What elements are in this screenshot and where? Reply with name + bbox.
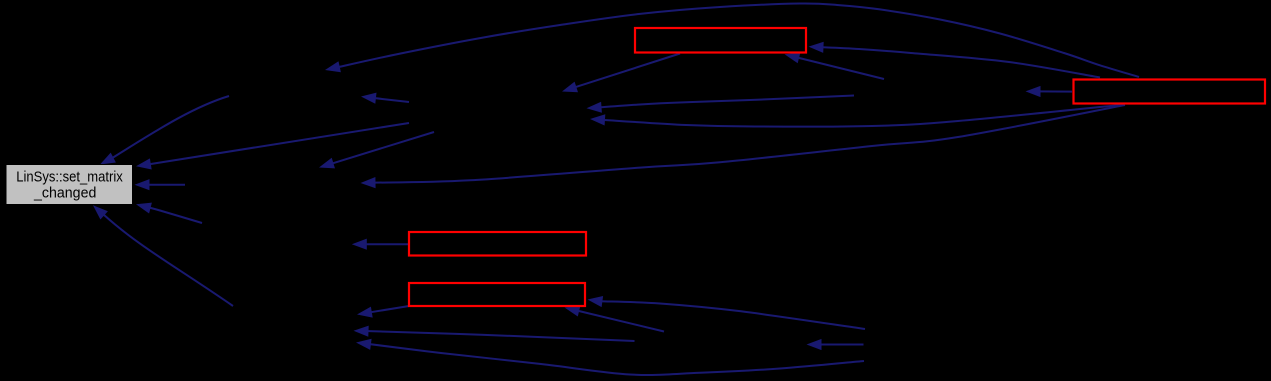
svg-text:_changed: _changed [33, 184, 96, 201]
edge E20 into mid red box 2 bottom-right [575, 310, 664, 331]
node: middle red box 2 (truncated caller) [409, 283, 585, 306]
edge E4 from top red box to mid node [573, 54, 681, 89]
edge E2 right box to top red box right edge [820, 47, 1101, 77]
edge E5 short mid arrow [372, 98, 409, 102]
node: right red box (truncated caller) [1074, 80, 1266, 104]
svg-text:LinSys::set_matrix: LinSys::set_matrix [16, 169, 123, 186]
edge E10 long curve from right box bottom [372, 105, 1126, 183]
edge E22 line into left node top [330, 132, 435, 164]
edge E16 long arrow lower-left a [365, 331, 635, 341]
edge E9 long line into gray box top-right corner [147, 123, 409, 165]
edge E19 short horizontal arrow bottom right [818, 344, 864, 346]
edge E17 bottom swooping curve [367, 344, 864, 375]
edge E8 curve into gray box top [112, 96, 230, 159]
edge E3 into top red box bottom-right [795, 57, 884, 79]
edge E6 long arrow to mid node upper [598, 96, 855, 108]
edge E11 short arrow into gray box right edge [146, 184, 186, 186]
edge E18 curve into mid red box 2 right edge [595, 301, 865, 329]
node: top red box (truncated caller) [635, 28, 806, 53]
edge E7 long arrow to mid node lower [601, 105, 1125, 127]
edge E15 from mid red box 2 bottom-left [368, 306, 409, 313]
node: gray function box LinSys::set_matrix_changed [6, 165, 133, 205]
edge E1 arc from right box to upper-left node [336, 3, 1139, 77]
edge E14 from mid red box 1 left [363, 243, 408, 245]
node: middle red box 1 (truncated caller) [409, 232, 586, 256]
edge E12 swoosh into gray box bottom [104, 215, 234, 307]
edge E23 from right box left edge [1037, 90, 1073, 92]
edge E13 into gray box bottom-right corner [147, 207, 202, 223]
